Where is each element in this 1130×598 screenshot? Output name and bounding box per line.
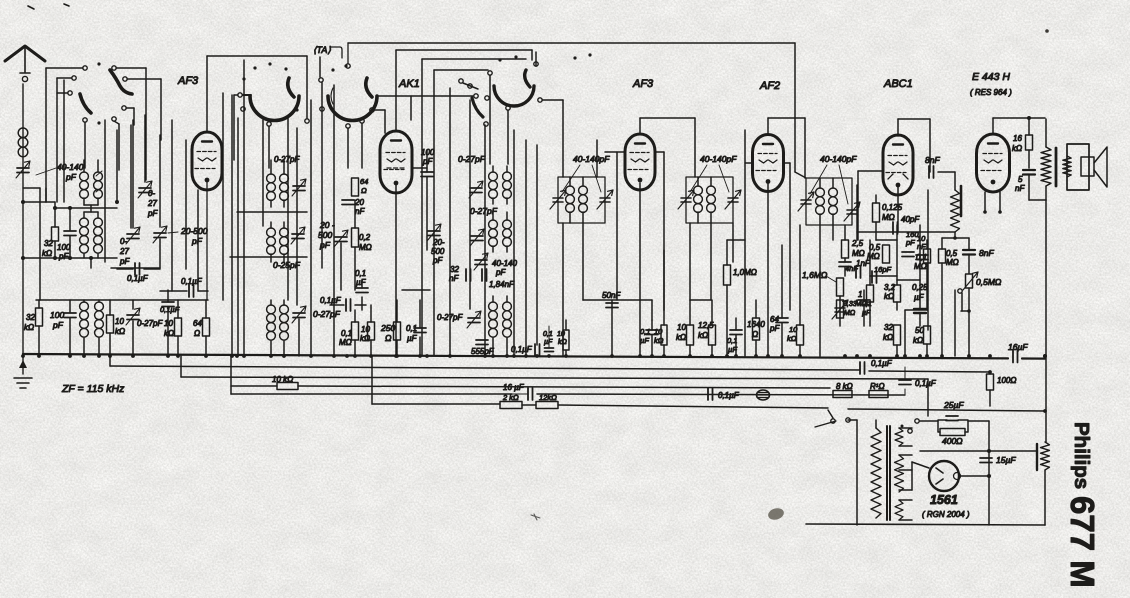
resistor 64 Ohm AK1 xyxy=(352,178,359,196)
wire mains xyxy=(828,410,833,418)
trimmer osc xyxy=(293,186,305,191)
capacitor 0,1uF d xyxy=(414,328,426,333)
svg-text:kΩ: kΩ xyxy=(164,329,174,338)
svg-text:0,125: 0,125 xyxy=(882,203,903,212)
svg-text:pF: pF xyxy=(147,209,158,218)
svg-text:kΩ: kΩ xyxy=(913,336,923,345)
bus line 4 with 10k xyxy=(231,385,277,387)
volume potentiometer xyxy=(951,190,960,232)
capacitor 0,1 uF osc xyxy=(356,288,368,293)
svg-text:100: 100 xyxy=(421,148,435,157)
svg-text:pF: pF xyxy=(58,252,69,261)
capacitor 0,1uF c xyxy=(162,302,174,307)
svg-text:ABC1: ABC1 xyxy=(883,78,913,90)
tube ABC1 xyxy=(883,135,913,195)
capacitor 0,1 uF b xyxy=(189,285,194,297)
svg-text:kΩ: kΩ xyxy=(115,327,125,336)
svg-text:50nF: 50nF xyxy=(602,291,621,300)
svg-text:kΩ: kΩ xyxy=(676,333,686,342)
svg-text:AF3: AF3 xyxy=(177,75,199,87)
svg-text:AF2: AF2 xyxy=(759,80,780,92)
wire AF2 grid tick xyxy=(745,162,753,164)
svg-text:10: 10 xyxy=(164,319,173,328)
svg-text:E 443 H: E 443 H xyxy=(972,71,1010,83)
variable capacitor 40-140pF antenna trim xyxy=(17,168,29,173)
svg-text:0,1: 0,1 xyxy=(640,327,650,336)
wire bus right xyxy=(1043,354,1047,358)
svg-text:16: 16 xyxy=(1013,134,1022,143)
tube AK1 mixer xyxy=(380,131,412,193)
svg-text:0-: 0- xyxy=(148,189,155,198)
svg-text:0,1: 0,1 xyxy=(355,269,366,278)
svg-text:20: 20 xyxy=(354,198,364,207)
svg-text:10: 10 xyxy=(115,317,124,326)
resistor 10k AF2 xyxy=(797,325,804,345)
speaker frame xyxy=(1067,144,1089,190)
S3 contacts xyxy=(319,78,323,82)
svg-text:32: 32 xyxy=(26,313,35,322)
resistor 32 kOhm xyxy=(54,202,56,227)
osc coil pair 3 xyxy=(270,300,272,305)
antenna xyxy=(5,46,45,61)
bus junction dots xyxy=(21,354,25,358)
resistor 50 kOhm xyxy=(924,326,931,344)
svg-text:0,1µF: 0,1µF xyxy=(915,379,937,388)
svg-text:pF: pF xyxy=(52,320,64,330)
svg-text:20-: 20- xyxy=(432,238,445,247)
wire T3 grid xyxy=(605,151,625,153)
svg-text:10: 10 xyxy=(677,323,686,332)
AK1 extra grid xyxy=(387,167,405,169)
antenna plug xyxy=(20,72,30,74)
wire vertical xyxy=(116,130,118,202)
svg-text:16µF: 16µF xyxy=(1008,342,1028,352)
svg-text:pF: pF xyxy=(432,256,443,265)
output transformer primary xyxy=(1041,147,1051,186)
trimmer 0-27 pF a xyxy=(139,188,151,193)
capacitor 25uF xyxy=(946,416,958,421)
ground symbol xyxy=(22,355,24,374)
field coil choke xyxy=(1036,444,1038,470)
capacitor 1nF xyxy=(839,262,851,267)
svg-text:40-140: 40-140 xyxy=(57,162,84,172)
svg-text:0,1µF: 0,1µF xyxy=(511,345,533,354)
capacitor 0,7uF xyxy=(899,380,911,385)
resistor 1 MOhm xyxy=(867,285,874,302)
capacitor 4nF xyxy=(856,266,861,278)
resistor 10 kOhm c xyxy=(368,322,375,340)
svg-text:kΩ: kΩ xyxy=(42,249,52,258)
svg-text:40-140pF: 40-140pF xyxy=(820,154,857,164)
variable capacitor 20-500 pF xyxy=(154,233,166,238)
resistor 1,0 MOhm xyxy=(724,265,731,285)
BF1 trimmer right xyxy=(600,198,610,202)
svg-text:0,1: 0,1 xyxy=(727,336,737,345)
svg-text:50: 50 xyxy=(915,326,924,335)
S2 wires xyxy=(234,94,238,96)
band switch S3 rotor xyxy=(328,96,377,121)
IF transformer T2b xyxy=(492,212,494,220)
trimmer e xyxy=(470,188,482,193)
svg-text:Ω: Ω xyxy=(194,329,200,338)
svg-text:0-: 0- xyxy=(120,237,127,246)
svg-text:Philips: Philips xyxy=(1070,422,1093,489)
svg-text:64: 64 xyxy=(360,177,368,186)
svg-text:MΩ: MΩ xyxy=(867,252,880,261)
svg-text:pF: pF xyxy=(319,240,331,250)
S4 wires xyxy=(489,75,491,164)
wire TA to top rail xyxy=(330,47,342,58)
wire speaker circuit xyxy=(1029,199,1046,201)
svg-text:pF: pF xyxy=(119,257,130,266)
BF1 coils xyxy=(566,186,575,195)
resistor 0,2 MOhm xyxy=(352,228,359,247)
resistor 0,5 MOhm fixed xyxy=(939,249,946,263)
resistor 0,125 MOhm ABC1 xyxy=(873,203,880,222)
svg-text:AF3: AF3 xyxy=(632,78,654,90)
resistor 8 kOhm xyxy=(833,391,852,398)
resistor 0,1 MOhm xyxy=(352,322,359,340)
svg-text:pF: pF xyxy=(769,324,780,333)
resistor 12,5 kOhm xyxy=(709,325,716,345)
resistor 0,5 MOhm xyxy=(883,245,890,263)
svg-text:0,1µF: 0,1µF xyxy=(320,296,342,305)
svg-text:10: 10 xyxy=(789,325,798,334)
svg-text:0,1: 0,1 xyxy=(916,253,927,262)
wire node xyxy=(21,200,25,204)
capacitor 0,25uF xyxy=(914,309,926,313)
band switch S1 rotor arm B xyxy=(110,70,132,94)
resistor+cap under T3 xyxy=(646,330,658,335)
resistor 32 kOhm b xyxy=(38,300,40,308)
diode plates ABC1 xyxy=(888,174,908,179)
wire T6 top rail xyxy=(992,118,994,134)
capacitor 100 pF xyxy=(69,208,71,230)
IF transformer input coils xyxy=(83,160,85,172)
capacitor 16uF electrolytic xyxy=(1013,350,1018,363)
band switch S2 rotor xyxy=(250,96,299,121)
wire T3 cathode xyxy=(639,183,641,355)
wire T4 cathode xyxy=(767,184,769,355)
svg-text:1,6MΩ: 1,6MΩ xyxy=(802,270,828,280)
wire vertical group right of T1 xyxy=(222,93,224,300)
svg-text:kΩ: kΩ xyxy=(1012,144,1022,153)
speaker voice coil xyxy=(1063,156,1071,177)
svg-text:1640: 1640 xyxy=(747,320,765,329)
svg-text:Ω: Ω xyxy=(385,333,392,343)
svg-text:MΩ: MΩ xyxy=(844,310,856,317)
svg-text:40-140pF: 40-140pF xyxy=(700,154,737,164)
wire antenna tap xyxy=(23,187,40,189)
capacitor 1,84nF xyxy=(482,269,487,281)
wire top-left verticals extra xyxy=(63,80,65,202)
BF2 trimmer left xyxy=(681,198,691,202)
BF1 trimmer left xyxy=(553,198,563,202)
svg-text:677 M: 677 M xyxy=(1064,496,1101,588)
capacitor 100 pF b xyxy=(69,300,71,312)
S3 wires xyxy=(474,94,478,98)
svg-text:15µF: 15µF xyxy=(996,455,1016,465)
svg-text:10: 10 xyxy=(361,325,370,334)
svg-text:16pF: 16pF xyxy=(874,265,892,274)
svg-text:1561: 1561 xyxy=(930,493,958,507)
svg-text:⟨TA⟩: ⟨TA⟩ xyxy=(313,45,331,55)
svg-text:500: 500 xyxy=(318,230,332,240)
BF2 trimmer right xyxy=(728,198,738,202)
wire T4 top xyxy=(767,118,769,135)
capacitor 0,1uF AK out xyxy=(535,344,540,356)
wire AK1 top xyxy=(395,50,397,131)
trimmer 40-140 xyxy=(475,260,487,265)
svg-text:0,5MΩ: 0,5MΩ xyxy=(976,277,1002,287)
capacitor 50nF screen xyxy=(611,300,613,355)
bandfilter BF3 box xyxy=(806,178,852,225)
IF transformer T2c xyxy=(492,296,494,302)
svg-text:µF: µF xyxy=(728,345,737,354)
svg-text:MΩ: MΩ xyxy=(359,243,372,252)
svg-text:1,84nF: 1,84nF xyxy=(489,280,515,289)
mains transformer secondary top xyxy=(895,428,903,446)
capacitor 0,1 uF xyxy=(135,263,140,275)
svg-text:64: 64 xyxy=(770,315,779,324)
wire line 258 xyxy=(23,257,117,259)
svg-text:0,1: 0,1 xyxy=(406,324,417,333)
tube AF2 xyxy=(753,135,784,192)
capacitor 5nF xyxy=(1023,170,1035,175)
svg-text:MΩ: MΩ xyxy=(946,258,959,267)
svg-text:400Ω: 400Ω xyxy=(942,436,963,446)
bus line 2 xyxy=(109,356,111,366)
svg-text:32: 32 xyxy=(884,323,893,332)
svg-text:MΩ: MΩ xyxy=(339,338,352,347)
resistor 10 kOhm b xyxy=(175,318,182,336)
variable resistor 0,33 MOhm xyxy=(837,300,844,318)
resistor 3,2 kOhm xyxy=(894,285,901,302)
wire heater line xyxy=(920,450,989,452)
trimmer 0-27pF d xyxy=(293,313,305,318)
wire AK1 cathode xyxy=(395,185,397,355)
resistor 1640 Ohm xyxy=(753,318,760,340)
wire HT to field xyxy=(989,450,1037,452)
S2 contacts xyxy=(238,93,242,97)
coil pair 2 oscillator xyxy=(83,212,85,218)
speaker cone xyxy=(1094,147,1107,187)
capacitor 0,1uF tone xyxy=(858,300,870,305)
wire tube top xyxy=(206,56,208,132)
svg-text:10 kΩ: 10 kΩ xyxy=(272,375,293,384)
rectifier tube 1561 xyxy=(929,461,959,491)
bus line 6 with 2k 12k xyxy=(372,403,500,405)
wire top rail xyxy=(348,42,795,44)
pilot lamp xyxy=(757,390,770,400)
oscillator coil pair xyxy=(270,160,272,174)
svg-text:27: 27 xyxy=(147,199,157,208)
capacitor 20 nF xyxy=(342,200,354,205)
svg-text:64: 64 xyxy=(193,319,202,328)
ink blob xyxy=(767,507,785,522)
capacitor 40pF xyxy=(893,222,898,234)
capacitor 32 nF xyxy=(466,269,471,281)
BF3 trimmer left xyxy=(801,200,811,204)
svg-text:MΩ: MΩ xyxy=(852,249,865,258)
wire AF2 anode xyxy=(783,162,790,164)
svg-text:0,5: 0,5 xyxy=(869,243,881,252)
wire AF3b anode xyxy=(655,151,664,153)
svg-text:100Ω: 100Ω xyxy=(997,376,1016,385)
capacitor 0,1uF bus xyxy=(860,362,865,374)
svg-text:Ω: Ω xyxy=(752,330,758,339)
power switch xyxy=(831,419,835,423)
svg-text:40-140pF: 40-140pF xyxy=(573,154,610,164)
capacitor 8nF b xyxy=(963,250,975,255)
svg-text:pF: pF xyxy=(65,172,77,182)
wire horizontals xyxy=(237,211,307,213)
BF3 trimmer right xyxy=(847,210,857,214)
resistor 1,6 MOhm b xyxy=(837,278,844,296)
svg-text:Ω: Ω xyxy=(361,186,367,195)
capacitor 64 pF xyxy=(776,318,788,323)
svg-text:32: 32 xyxy=(44,239,53,248)
svg-text:( RGN 2004 ): ( RGN 2004 ) xyxy=(922,510,970,519)
svg-text:8nF: 8nF xyxy=(979,248,994,258)
wire verticals S2S3 area xyxy=(237,118,239,355)
capacitor 0,1uF T3b xyxy=(730,330,742,335)
wire tube cathode xyxy=(206,182,208,300)
svg-text:2 kΩ: 2 kΩ xyxy=(502,393,519,402)
svg-text:27: 27 xyxy=(119,247,129,256)
svg-text:555pF: 555pF xyxy=(471,347,495,356)
svg-text:µF: µF xyxy=(640,336,649,345)
S3 rotation arrow xyxy=(331,88,333,104)
coil antenna L1 xyxy=(18,128,28,138)
svg-text:µF: µF xyxy=(407,334,418,343)
svg-text:AK1: AK1 xyxy=(398,78,420,90)
wire field coil down xyxy=(1045,200,1047,442)
svg-text:250: 250 xyxy=(380,323,395,333)
transformer taps xyxy=(899,427,912,429)
svg-text:pF: pF xyxy=(191,236,203,246)
tube AF3 second xyxy=(625,134,655,190)
trimmer f xyxy=(471,236,483,241)
svg-text:kΩ: kΩ xyxy=(360,334,370,343)
mains transformer core xyxy=(887,426,890,520)
resistor R Ohm xyxy=(869,391,888,398)
wire verticals right half xyxy=(611,300,613,356)
capacitor 15uF xyxy=(980,458,992,463)
osc coil pair 2 xyxy=(270,222,272,228)
speck x xyxy=(531,514,540,520)
wire diode return box xyxy=(858,170,883,172)
bandfilter BF2 box xyxy=(686,177,733,223)
wire pot feed xyxy=(942,237,969,239)
svg-text:100: 100 xyxy=(50,310,64,320)
svg-text:0,1µF: 0,1µF xyxy=(127,274,149,283)
svg-text:0-27pF: 0-27pF xyxy=(458,154,486,164)
paper speck xyxy=(1045,29,1049,33)
core arrows xyxy=(96,171,102,192)
bandfilter BF1 box xyxy=(558,177,605,223)
capacitor 555 pF xyxy=(476,340,488,345)
resistor 16 kOhm xyxy=(1026,135,1033,150)
trimmer g xyxy=(468,318,480,323)
svg-text:0,1µF: 0,1µF xyxy=(871,359,893,368)
speaker magnet xyxy=(1081,157,1094,176)
output transformer core xyxy=(1055,148,1058,186)
mains transformer secondary fil xyxy=(895,500,903,520)
svg-text:ZF = 115 kHz: ZF = 115 kHz xyxy=(61,383,125,395)
bus line 3 xyxy=(181,377,928,379)
svg-text:kΩ: kΩ xyxy=(24,323,34,332)
svg-text:R¹Ω: R¹Ω xyxy=(870,382,885,391)
wire HT vertical xyxy=(988,421,990,525)
wire xyxy=(36,299,208,301)
svg-text:µF: µF xyxy=(356,278,367,287)
switch arm extra xyxy=(472,98,483,117)
svg-text:( RES 964 ): ( RES 964 ) xyxy=(970,88,1012,97)
wire rectifier xyxy=(912,462,929,468)
svg-text:100: 100 xyxy=(57,243,71,252)
svg-text:0,5: 0,5 xyxy=(946,249,958,258)
svg-text:0,1µF: 0,1µF xyxy=(160,305,180,314)
wire horizontals right half xyxy=(583,299,652,301)
resistor 10 kOhm T3 xyxy=(687,325,694,345)
S4 left contact xyxy=(459,79,463,83)
svg-text:10: 10 xyxy=(654,327,663,336)
svg-text:8 kΩ: 8 kΩ xyxy=(836,382,853,391)
coil pair 3 frame aerial xyxy=(83,300,85,302)
svg-text:0,33: 0,33 xyxy=(843,301,857,308)
svg-text:0,2: 0,2 xyxy=(359,233,371,242)
capacitor 16pF xyxy=(872,271,877,283)
resistor 400 Ohm xyxy=(940,429,965,436)
S1 contact wires xyxy=(46,67,83,69)
svg-text:8nF: 8nF xyxy=(925,155,940,165)
wire T5 top xyxy=(897,119,899,136)
svg-text:4nF: 4nF xyxy=(845,264,858,273)
svg-text:5: 5 xyxy=(1018,175,1023,184)
potentiometer 0,5 MOhm tone xyxy=(966,274,973,288)
svg-text:pF: pF xyxy=(495,268,506,277)
wire horizontal xyxy=(111,267,160,269)
trimmer 0-25pF xyxy=(292,234,304,239)
capacitor 0,1uF osc2 xyxy=(346,299,351,311)
mains transformer secondary HT xyxy=(895,455,904,492)
resistor 32 kOhm b xyxy=(894,325,901,345)
registration mark xyxy=(28,4,69,9)
wire ABC1 cathode xyxy=(897,187,899,232)
variable cap 20-500 osc xyxy=(335,237,347,242)
S4 contacts xyxy=(488,71,492,75)
variable cap 20-500 b xyxy=(428,231,440,236)
resistor 250 Ohm xyxy=(394,322,401,340)
resistor 100 Ohm xyxy=(987,374,994,390)
trimmer 0-27 pF b xyxy=(127,234,139,239)
wire AK column verticals xyxy=(449,88,451,355)
tube E443H xyxy=(977,134,1010,192)
trimmer 0-27pF c xyxy=(127,315,139,320)
resistor 10 kOhm xyxy=(109,300,111,315)
svg-text:0,1: 0,1 xyxy=(543,331,553,338)
svg-text:kΩ: kΩ xyxy=(698,331,708,340)
capacitor 8nF coupling xyxy=(929,166,934,178)
switch cluster S4 rotor xyxy=(494,86,534,106)
svg-text:kΩ: kΩ xyxy=(883,333,893,342)
svg-text:12,5: 12,5 xyxy=(698,321,714,330)
IF transformer T2a xyxy=(492,166,494,172)
mains transformer primary xyxy=(871,428,881,518)
wire antenna down xyxy=(22,84,24,355)
svg-text:kΩ: kΩ xyxy=(654,336,664,345)
